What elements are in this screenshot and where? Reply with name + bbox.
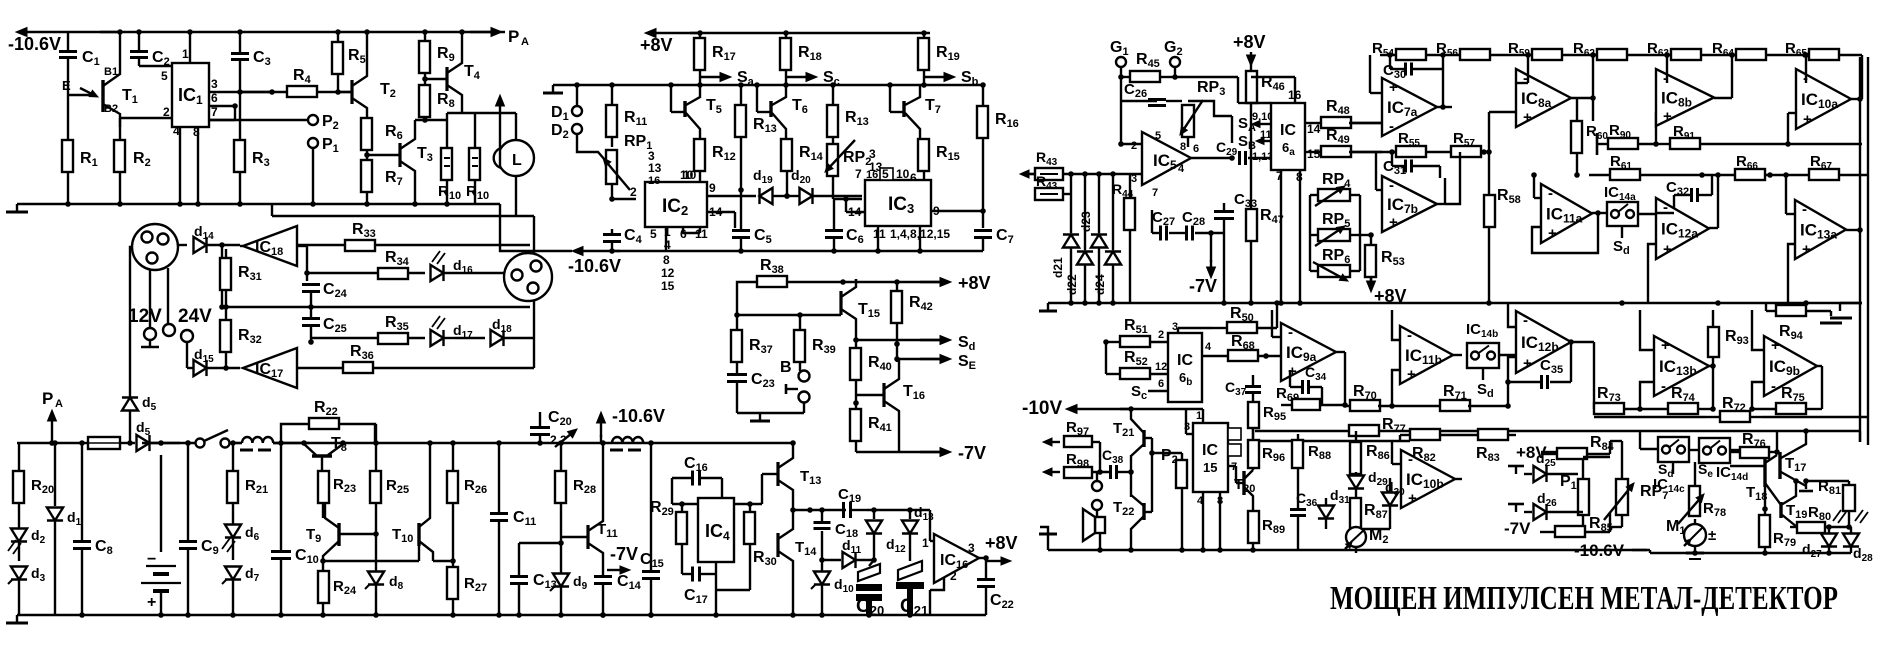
wire T2122 junction [1130, 455, 1132, 497]
terminal H [799, 392, 810, 403]
svg-text:d24: d24 [1093, 274, 1107, 295]
terminal 24Va [163, 324, 175, 336]
op-amp U11b [1400, 326, 1453, 384]
capacitor C18 [821, 510, 823, 521]
switch S1 [196, 439, 205, 448]
resistor R19 [923, 33, 925, 38]
wire U7b chain [1445, 152, 1460, 204]
capacitor C16 [691, 471, 694, 486]
svg-text:-7V: -7V [610, 544, 638, 564]
svg-text:16: 16 [866, 169, 878, 181]
wire R80 leds [1790, 526, 1797, 528]
svg-text:-: - [1523, 312, 1528, 329]
meter M2 [1346, 527, 1366, 547]
resistor R71 [1440, 400, 1470, 411]
resistor R2 [119, 127, 121, 140]
wire IC1 pin2-P2 [119, 118, 121, 127]
svg-text:+: + [1407, 366, 1416, 383]
transistor T2 [338, 91, 352, 93]
IC U3 box [865, 180, 931, 226]
wire lower return [271, 204, 273, 216]
svg-text:P: P [42, 389, 53, 408]
resistor R48 [1321, 117, 1351, 128]
wire T13 base [761, 474, 763, 504]
diode d10 [821, 560, 823, 571]
terminal B [799, 371, 810, 382]
LED arrows d67 [222, 538, 230, 549]
power rail -10.6V [27, 31, 120, 33]
svg-text:+8V: +8V [958, 273, 991, 293]
capacitor C11 [498, 443, 500, 512]
svg-text:IC: IC [1280, 122, 1296, 139]
resistor R53 [1370, 235, 1372, 245]
resistor R87 [1350, 498, 1361, 530]
op-amp U8a [1516, 69, 1571, 127]
diode d26 [1524, 511, 1532, 513]
wire T17 emitter [1806, 480, 1849, 482]
resistor R1 [67, 95, 69, 140]
resistor R66 [1735, 169, 1765, 180]
resistor R39 [799, 315, 801, 330]
diode d22 [1077, 252, 1093, 265]
IC U6a box [1271, 103, 1305, 170]
resistor R21 [232, 443, 234, 471]
resistor R55 [1396, 146, 1426, 157]
wire T3 emitter [414, 179, 416, 204]
diode d19 [760, 188, 773, 204]
resistor R76 [1740, 447, 1769, 458]
resistor R13a [740, 85, 742, 105]
wire M2 down [1355, 547, 1357, 553]
wire IC15 pin7 [1228, 465, 1236, 467]
transistor T16 [882, 383, 885, 407]
wire IC5 in2 [1120, 98, 1122, 144]
resistor R27 [447, 567, 458, 599]
resistor R74 [1668, 403, 1698, 414]
rail F bottom [1650, 552, 1851, 554]
svg-text:1: 1 [922, 536, 929, 550]
terminal B1 G [1092, 481, 1102, 491]
capacitor C25 [302, 317, 320, 320]
wire IC2 pin2 [612, 198, 636, 200]
svg-text:11: 11 [873, 227, 886, 241]
resistor R43a [1035, 168, 1063, 180]
transistor T5 [670, 85, 672, 112]
resistor R91 [1656, 143, 1670, 145]
svg-text:8: 8 [1180, 141, 1186, 153]
resistor R10a [461, 103, 463, 113]
diode d1 [54, 443, 56, 506]
op-amp U7b [1382, 176, 1437, 232]
resistor R11 [611, 85, 613, 105]
svg-text:3: 3 [869, 147, 876, 161]
capacitor C3 [239, 32, 241, 52]
resistor R24 [318, 571, 329, 603]
svg-text:+: + [1523, 109, 1532, 126]
resistor R60 [1571, 121, 1582, 153]
op-amp U9b [1764, 336, 1817, 396]
svg-text:-10.6V: -10.6V [568, 256, 621, 276]
resistor R14 [781, 139, 792, 171]
diode d18 [455, 337, 485, 339]
wire U13a out [1846, 229, 1860, 231]
resistor R54 [1396, 49, 1426, 60]
svg-text:-: - [1389, 118, 1394, 135]
wire dcol top [1070, 174, 1072, 233]
svg-text:7: 7 [855, 167, 862, 181]
resistor R89 [1248, 511, 1259, 543]
svg-text:+: + [1389, 214, 1398, 231]
svg-text:8: 8 [663, 253, 670, 267]
signal Sc [786, 76, 806, 78]
wire 6a out drop [1320, 122, 1322, 124]
svg-text:E: E [62, 78, 71, 93]
resistor R36 [297, 367, 343, 369]
svg-text:МОЩЕН ИМПУЛСЕН МЕТАЛ-ДЕТЕКТОР: МОЩЕН ИМПУЛСЕН МЕТАЛ-ДЕТЕКТОР [1330, 580, 1838, 617]
svg-text:10: 10 [896, 167, 910, 181]
pot RP7 [1616, 479, 1628, 515]
zener d5a [122, 398, 138, 411]
resistor R42 [896, 282, 898, 291]
connector socket X2 [504, 253, 552, 301]
svg-text:B1: B1 [104, 66, 118, 78]
IC U2 box [645, 182, 707, 227]
wire to X2 [504, 272, 506, 274]
svg-text:d21: d21 [1051, 257, 1065, 278]
rail G bottom [1048, 549, 1647, 551]
svg-text:+: + [1548, 225, 1557, 242]
resistor R37 [736, 315, 738, 330]
svg-text:2: 2 [1131, 140, 1137, 152]
svg-text:5: 5 [1155, 130, 1161, 142]
svg-text:d22: d22 [1065, 274, 1079, 295]
terminal 24Vb [181, 330, 193, 342]
IC U15 box [1193, 423, 1228, 492]
wire d15 feed [186, 342, 188, 368]
svg-text:7: 7 [1152, 187, 1158, 199]
wire P1 RP7 [1583, 456, 1610, 458]
wire PA [470, 31, 491, 33]
label -10.6V H [600, 423, 602, 437]
inductor L2 [242, 437, 273, 443]
resistor R26 [452, 443, 454, 471]
svg-text:B: B [780, 359, 792, 376]
svg-text:L: L [512, 152, 522, 169]
diode d31b [1318, 506, 1334, 519]
capacitor C24 [306, 273, 308, 281]
diode d12 [873, 510, 875, 519]
wire node3 [271, 91, 273, 93]
wire IC15 left [1186, 433, 1193, 435]
wire U12a out [1709, 227, 1718, 229]
diode d6 [225, 525, 241, 538]
resistor R61 [1589, 174, 1610, 176]
resistor R77 [1349, 425, 1379, 436]
svg-text:3: 3 [968, 541, 975, 555]
op-amp U13b [1654, 336, 1709, 396]
capacitor C1 [67, 32, 69, 50]
wire T10 conn [323, 560, 419, 562]
resistor R28 [560, 443, 562, 471]
search coil L [498, 140, 534, 176]
resistor R41 [855, 403, 857, 409]
svg-text:-: - [1288, 324, 1293, 341]
transistor T9 [337, 523, 340, 546]
resistor R32 [220, 320, 231, 352]
svg-text:P: P [508, 27, 519, 46]
rail -10.6V C [583, 250, 620, 252]
op-amp U13a [1795, 200, 1846, 259]
svg-text:12V: 12V [128, 306, 162, 327]
resistor R57 [1451, 146, 1481, 157]
IC15 pin boxes [1228, 428, 1241, 440]
transistor T1 [68, 94, 92, 96]
wire B left drop [129, 310, 131, 398]
resistor R4 [240, 91, 287, 93]
rail mid C [553, 84, 983, 86]
svg-text:+: + [1663, 108, 1672, 125]
ground rail A [16, 204, 18, 212]
resistor R72 [1720, 411, 1750, 422]
LED d28 [1850, 527, 1852, 534]
IC U1 box [172, 63, 209, 127]
resistor R46 [1246, 71, 1257, 103]
wire RP left bus [1309, 195, 1311, 271]
resistor R78 [1689, 486, 1700, 516]
svg-text:B2: B2 [104, 103, 118, 115]
diode d2 [11, 529, 27, 542]
svg-text:-7V: -7V [1189, 276, 1217, 296]
resistor R5 [337, 32, 339, 42]
wire IC16 fb [930, 577, 944, 590]
wire R30 conn [749, 544, 751, 590]
diode d8 [368, 572, 384, 585]
transistor T22 [1142, 503, 1145, 520]
op-amp U10a [1796, 69, 1851, 129]
wire RP right bus [1359, 195, 1361, 271]
fuse F1 [88, 437, 120, 449]
capacitor C21 bold [898, 561, 922, 580]
resistor R31 [225, 249, 227, 258]
capacitor C26 [1120, 77, 1122, 98]
resistor R82 [1410, 429, 1440, 440]
wire U12b out [1571, 341, 1594, 343]
LED d16 [431, 265, 444, 281]
wire IC18 right [297, 245, 307, 247]
svg-text:+8V: +8V [640, 35, 673, 55]
wire U14c feed [1639, 431, 1641, 449]
wire U11b out [1453, 354, 1462, 356]
signal Sa [700, 76, 720, 78]
diode d20 [800, 188, 813, 204]
wire IC18 out [240, 245, 243, 247]
inductor L3 [612, 437, 643, 443]
transistor T15 [839, 291, 842, 315]
resistor R7 [361, 160, 372, 192]
signal Se M [897, 358, 946, 360]
switch U14c [1658, 437, 1689, 462]
svg-text:5: 5 [650, 227, 657, 241]
svg-text:+: + [1389, 79, 1398, 96]
resistor R16 [982, 85, 984, 106]
svg-text:+: + [1661, 337, 1670, 354]
svg-text:5: 5 [882, 167, 889, 181]
diode d24 [1105, 252, 1121, 265]
resistor R75 [1776, 403, 1806, 414]
svg-text:1: 1 [1196, 410, 1202, 422]
wire IC16 in [929, 510, 931, 541]
LED d27 [1828, 527, 1830, 534]
op-amp U7a [1382, 78, 1437, 136]
transistor T19 [1779, 502, 1782, 518]
diode d13 [909, 510, 911, 519]
svg-text:-10V: -10V [1022, 398, 1062, 419]
op-amp U18 [243, 226, 297, 266]
capacitor C7 [974, 229, 992, 232]
wire IC5 out [1191, 157, 1232, 159]
pot RP1 [606, 150, 617, 184]
resistor R94 [1776, 305, 1806, 316]
resistor R23 body [318, 471, 329, 503]
terminal G2 [1170, 57, 1180, 67]
resistor R6 [366, 116, 368, 118]
speaker SP [1095, 517, 1105, 533]
transistor T4 [425, 78, 447, 80]
resistor R22 [281, 424, 309, 443]
wire M gnd [737, 412, 804, 414]
transistor T8 [312, 454, 332, 457]
resistor R3 [239, 92, 241, 140]
wire T14 out [793, 509, 810, 511]
op-amp U17 [243, 348, 297, 388]
LED arrows d23 [8, 540, 16, 551]
op-amp U10b [1401, 450, 1455, 508]
svg-text:-: - [1407, 327, 1412, 344]
transistor T6 [756, 85, 758, 112]
capacitor C9 [187, 443, 189, 540]
wire L bottom [515, 176, 517, 216]
diode d25 [1524, 473, 1532, 475]
svg-text:3: 3 [211, 77, 218, 91]
resistor R9 [424, 32, 426, 41]
wire RP7 top [1610, 440, 1622, 442]
svg-text:15: 15 [661, 279, 675, 293]
capacitor C6 [825, 229, 843, 232]
battery GB [160, 455, 162, 552]
resistor R70 [1350, 400, 1380, 411]
resistor R43b [1035, 188, 1063, 200]
svg-text:-: - [1548, 185, 1553, 202]
wire U8a out [1571, 97, 1593, 99]
svg-text:IC: IC [1202, 442, 1218, 459]
resistor R35 [311, 337, 378, 339]
wire R93 R74 [1712, 366, 1714, 409]
svg-text:1: 1 [182, 47, 189, 61]
terminal P2 [308, 115, 318, 125]
svg-text:-: - [1802, 201, 1807, 218]
wire fuse [17, 442, 84, 444]
wire U9a out [1336, 351, 1345, 353]
op-amp U9a [1281, 323, 1336, 381]
svg-text:24V: 24V [178, 306, 212, 327]
resistor R63 [1671, 49, 1701, 60]
svg-text:4: 4 [1205, 341, 1212, 353]
zener d7 [225, 567, 241, 580]
svg-text:2: 2 [630, 185, 637, 199]
transistor T13 [776, 462, 779, 486]
resistor R18 [785, 33, 787, 38]
capacitor C23 [727, 373, 747, 376]
meter M1 [1684, 524, 1706, 546]
terminal G1 [1116, 57, 1126, 67]
terminal D2 [572, 124, 582, 134]
wire row3 [1594, 416, 1706, 418]
resistor R65 [1809, 49, 1839, 60]
svg-text:±: ± [1708, 527, 1716, 544]
svg-text:2: 2 [950, 569, 957, 583]
resistor R93 [1708, 327, 1719, 357]
transistor T18 [1763, 459, 1766, 487]
label +8V M [920, 281, 940, 283]
diode d30 [1382, 493, 1398, 506]
ground G [1040, 527, 1048, 550]
wire right edge v1 [1861, 55, 1863, 99]
diode d15 [194, 360, 207, 376]
wire mid rail B [222, 306, 530, 308]
wire C4 top feed [500, 204, 572, 251]
rail H top [229, 442, 242, 444]
wire F bus1 [1255, 440, 1410, 442]
op-amp U12a [1656, 198, 1709, 259]
svg-text:+: + [1663, 241, 1672, 258]
svg-text:15: 15 [1307, 147, 1321, 161]
wire input row [1029, 173, 1038, 175]
diode d14 [178, 244, 187, 246]
svg-text:7: 7 [211, 105, 218, 119]
svg-text:-10.6V: -10.6V [612, 406, 665, 426]
resistor R20 [18, 443, 20, 471]
svg-text:+: + [147, 594, 156, 611]
wire U11a out [1592, 212, 1607, 214]
resistor R15 [918, 139, 929, 171]
svg-text:6: 6 [1158, 378, 1164, 390]
svg-text:d23: d23 [1079, 211, 1093, 232]
svg-text:2: 2 [1158, 329, 1164, 341]
svg-text:13: 13 [648, 161, 662, 175]
ground rail mid [1048, 302, 1862, 304]
resistor R13b [832, 85, 834, 105]
wire T20 T18 link [1699, 449, 1700, 451]
svg-text:16: 16 [648, 175, 660, 187]
rail +8V top [656, 32, 700, 34]
transistor T3 [367, 154, 400, 156]
svg-text:+: + [1771, 337, 1780, 354]
label -7V M [856, 451, 946, 453]
resistor R83 [1478, 429, 1508, 440]
terminal P1 [308, 138, 318, 148]
capacitor C22 [985, 558, 987, 578]
svg-text:2: 2 [163, 105, 170, 119]
ground mid right [1839, 303, 1841, 311]
resistor R12 [694, 139, 705, 171]
resistor R47 [1250, 112, 1252, 209]
svg-text:-10.6V: -10.6V [8, 34, 61, 54]
wire U11a fb [1532, 213, 1598, 253]
op-amp U12b [1516, 311, 1571, 373]
wire RP1 tap [577, 134, 605, 160]
svg-text:-: - [1408, 451, 1413, 468]
junctions rail mid [1068, 300, 1074, 306]
